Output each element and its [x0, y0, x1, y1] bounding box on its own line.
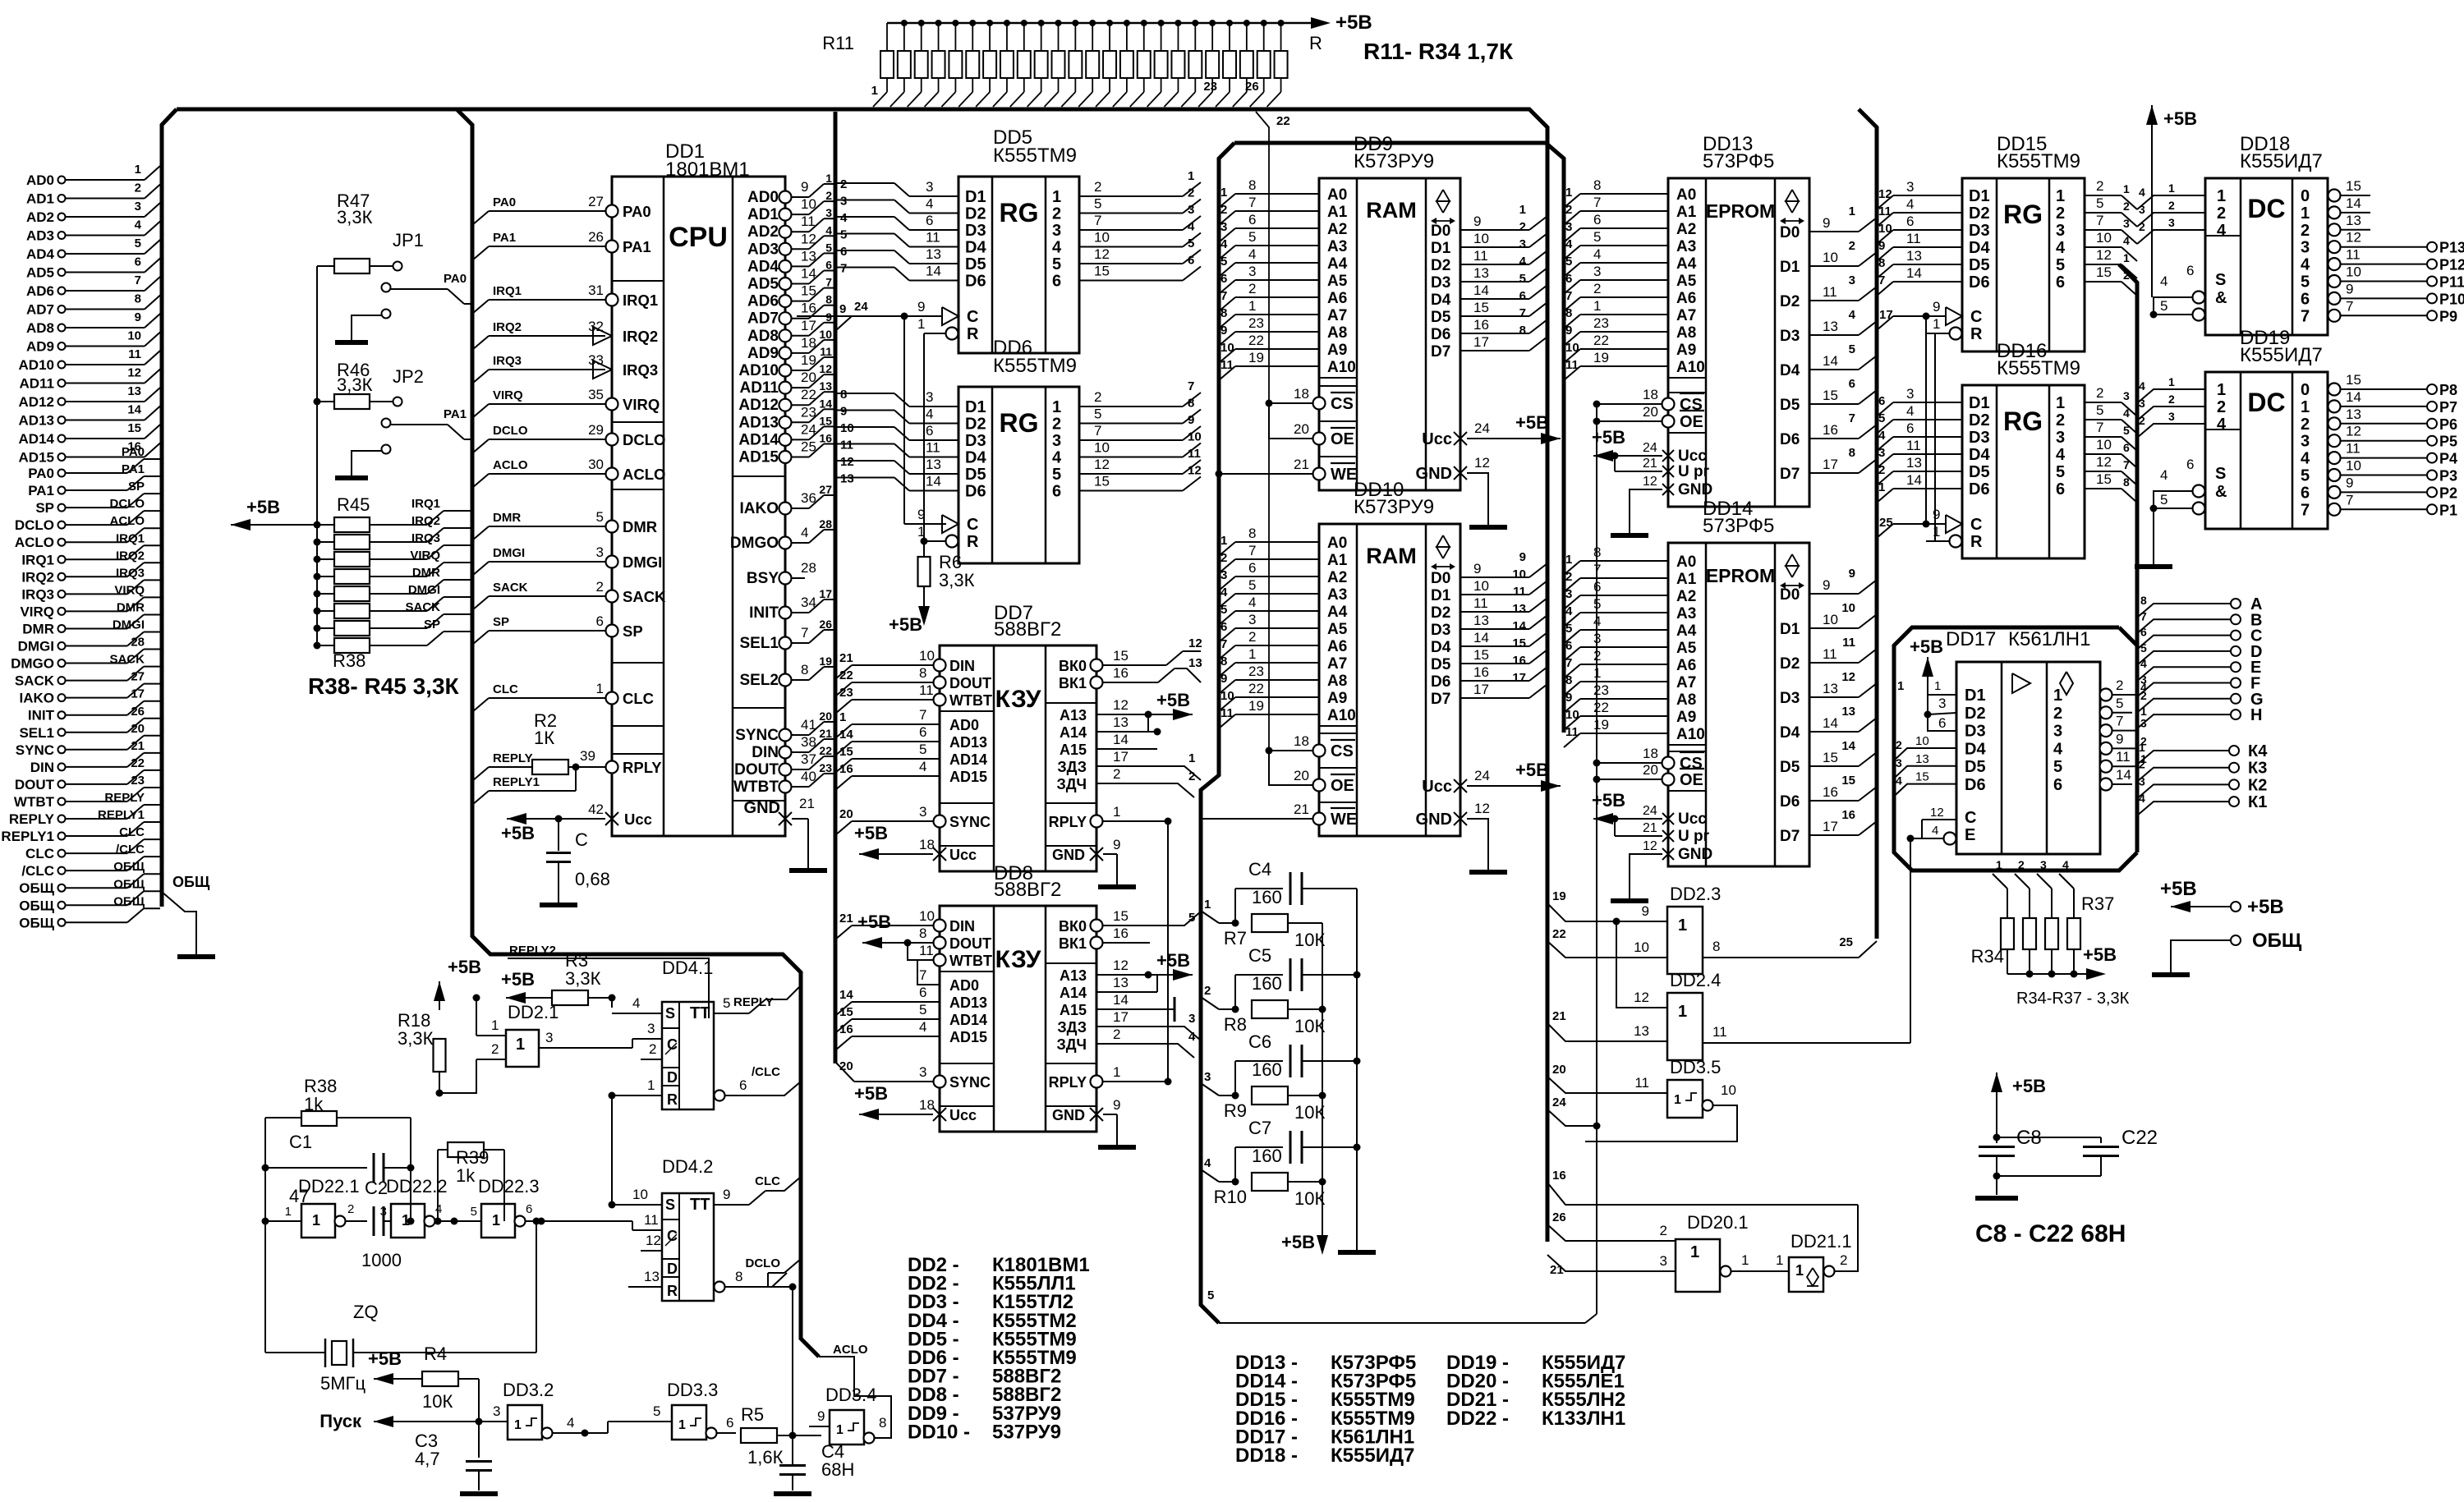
svg-text:D5: D5 — [1780, 397, 1800, 414]
svg-text:3: 3 — [919, 1064, 926, 1080]
svg-text:AD8: AD8 — [26, 320, 54, 336]
svg-text:A8: A8 — [1676, 691, 1696, 709]
svg-text:S: S — [2215, 271, 2226, 289]
svg-text:5: 5 — [2301, 467, 2310, 485]
svg-text:INIT: INIT — [28, 708, 55, 723]
decoder DD18 box — [2205, 178, 2328, 335]
Пуск arrow — [374, 1421, 479, 1422]
svg-text:2: 2 — [2096, 385, 2103, 401]
svg-text:19: 19 — [819, 655, 832, 668]
svg-text:19: 19 — [1593, 717, 1609, 733]
svg-text:7: 7 — [1519, 306, 1526, 320]
svg-text:DOUT: DOUT — [949, 935, 991, 952]
DD17 D4-D6 wires from frame — [1894, 748, 1956, 760]
svg-text:6: 6 — [926, 213, 933, 228]
bus: left frame vertical (connector bus X1) — [162, 109, 177, 907]
svg-text:A5: A5 — [1327, 621, 1348, 638]
svg-text:1: 1 — [1878, 480, 1885, 494]
svg-text:4: 4 — [1221, 586, 1228, 599]
svg-text:12: 12 — [840, 455, 854, 469]
svg-text:D1: D1 — [1965, 687, 1986, 705]
svg-text:20: 20 — [839, 1059, 853, 1073]
svg-text:+5В: +5В — [2083, 944, 2117, 965]
svg-text:3,3К: 3,3К — [398, 1028, 434, 1049]
svg-text:3: 3 — [825, 206, 832, 219]
svg-text:8: 8 — [1221, 306, 1227, 320]
register DD6 box — [958, 387, 1079, 563]
svg-text:AD10: AD10 — [738, 362, 779, 379]
svg-text:7: 7 — [825, 276, 832, 289]
svg-text:6: 6 — [2053, 776, 2062, 794]
svg-text:REPLY: REPLY — [493, 751, 533, 765]
svg-text:WTBT: WTBT — [733, 779, 779, 796]
svg-text:35: 35 — [588, 387, 604, 402]
svg-text:R10: R10 — [1214, 1187, 1247, 1207]
svg-text:11: 11 — [820, 345, 832, 358]
DD14 CS/OE wires — [1593, 760, 1601, 767]
svg-text:1: 1 — [1565, 553, 1572, 567]
flip-flop DD4.2 box — [662, 1193, 714, 1301]
svg-text:10: 10 — [1565, 708, 1579, 722]
DD5 pin R reset (1) — [946, 328, 958, 340]
svg-text:6: 6 — [840, 245, 847, 259]
svg-text:2: 2 — [2096, 178, 2103, 194]
svg-text:5: 5 — [2140, 641, 2147, 655]
svg-text:7: 7 — [1248, 543, 1256, 558]
terminal AD10 — [58, 361, 66, 369]
svg-text:13: 13 — [840, 472, 854, 486]
svg-text:27: 27 — [131, 670, 145, 684]
svg-text:4: 4 — [2053, 740, 2063, 758]
svg-text:D2: D2 — [965, 205, 986, 223]
svg-text:588ВГ2: 588ВГ2 — [994, 879, 1061, 901]
svg-text:3: 3 — [596, 544, 604, 560]
wire 26 from data bus to DD20.1 pin 2 — [1547, 1224, 1676, 1241]
svg-text:К573РУ9: К573РУ9 — [1354, 150, 1434, 172]
svg-text:P13: P13 — [2439, 240, 2464, 256]
terminal P13 — [2427, 242, 2437, 252]
svg-text:7: 7 — [2096, 420, 2103, 435]
svg-text:1: 1 — [2217, 187, 2226, 205]
svg-text:4: 4 — [2140, 657, 2147, 670]
svg-text:2: 2 — [2056, 204, 2065, 223]
DD8 A15 wire with stub mark — [1096, 1008, 1175, 1010]
svg-text:10: 10 — [1634, 939, 1649, 955]
DD13 pin CS (18) — [1662, 398, 1675, 411]
svg-text:3: 3 — [380, 1205, 387, 1219]
svg-text:ОБЩ: ОБЩ — [2252, 930, 2302, 952]
svg-text:3: 3 — [2056, 222, 2065, 240]
svg-text:IRQ2: IRQ2 — [116, 549, 145, 563]
svg-text:3: 3 — [840, 195, 847, 209]
svg-text:23: 23 — [839, 686, 853, 700]
svg-text:A4: A4 — [1327, 255, 1348, 273]
+5V feed line to DD18 S — [2151, 125, 2153, 297]
svg-text:AD9: AD9 — [747, 345, 779, 362]
svg-text:A7: A7 — [1327, 307, 1347, 324]
svg-text:9: 9 — [1933, 299, 1940, 315]
svg-text:CS: CS — [1331, 395, 1354, 413]
svg-text:8: 8 — [919, 665, 926, 681]
bus controller DD8 box — [940, 906, 1096, 1132]
svg-text:1: 1 — [647, 1077, 655, 1093]
svg-text:8: 8 — [825, 293, 832, 306]
DD8 pin Ucc (18) — [933, 1108, 946, 1121]
svg-text:+5В: +5В — [501, 969, 535, 990]
svg-text:К555ТМ9: К555ТМ9 — [993, 355, 1077, 377]
svg-text:+5В: +5В — [1281, 1232, 1315, 1252]
svg-text:ОБЩ: ОБЩ — [172, 874, 210, 890]
terminal IRQ2 — [58, 573, 66, 581]
DD17 triangle symbol — [2012, 673, 2030, 693]
terminal E — [2137, 667, 2230, 681]
+5V arrow down from R6 — [923, 586, 925, 612]
svg-text:3: 3 — [545, 1030, 553, 1045]
wire 20 from data bus to DD3.5 pin 11 — [1547, 1077, 1667, 1093]
wire /CLC net — [725, 1095, 749, 1096]
svg-text:8: 8 — [1593, 177, 1601, 193]
svg-text:16: 16 — [801, 301, 816, 316]
svg-text:13: 13 — [2346, 213, 2361, 228]
svg-text:7: 7 — [2140, 609, 2147, 622]
svg-text:VIRQ: VIRQ — [493, 388, 523, 402]
svg-text:ACLO: ACLO — [623, 466, 665, 483]
svg-text:5: 5 — [2096, 195, 2103, 211]
wire REPLY output DD4.1 — [714, 1013, 749, 1014]
svg-text:4: 4 — [1052, 449, 1062, 467]
svg-text:+5В: +5В — [1515, 760, 1549, 780]
DD8 ВК1 stub — [1103, 942, 1150, 944]
svg-text:+5В: +5В — [2012, 1076, 2046, 1096]
svg-text:6: 6 — [2186, 457, 2194, 472]
svg-text:DMR: DMR — [493, 511, 521, 525]
svg-text:4: 4 — [1188, 1030, 1196, 1044]
svg-text:P12: P12 — [2439, 257, 2464, 273]
svg-text:4: 4 — [1221, 237, 1228, 251]
svg-text:D2: D2 — [1969, 204, 1990, 223]
DD15 pin R (1) — [1950, 328, 1962, 340]
svg-text:R: R — [967, 325, 979, 343]
svg-text:19: 19 — [1593, 350, 1609, 365]
svg-text:AD12: AD12 — [19, 394, 54, 410]
svg-text:1: 1 — [2123, 182, 2130, 195]
svg-text:AD3: AD3 — [747, 241, 779, 258]
svg-text:13: 13 — [127, 384, 141, 398]
svg-text:2: 2 — [1094, 179, 1101, 195]
terminal AD5 — [58, 269, 66, 276]
resistor R39 — [314, 608, 321, 615]
svg-text:7: 7 — [135, 273, 141, 287]
resistor R8 10К — [1201, 997, 1219, 1009]
svg-text:REPLY: REPLY — [733, 995, 774, 1009]
svg-text:D6: D6 — [1431, 326, 1450, 343]
DD10 GND — [1454, 812, 1467, 825]
svg-text:GND: GND — [1416, 811, 1452, 829]
DD6 pin C clock (9) — [942, 515, 958, 533]
ground symbol CPU C — [558, 903, 559, 905]
wire 19 from data bus to DD2.3 pin 9 — [1547, 903, 1667, 921]
svg-text:DD22.3: DD22.3 — [478, 1176, 540, 1197]
svg-text:D: D — [667, 1069, 678, 1086]
svg-text:11: 11 — [1513, 585, 1526, 599]
svg-text:1: 1 — [1933, 524, 1940, 540]
resistor R42 — [314, 556, 321, 563]
svg-text:20: 20 — [1294, 421, 1309, 437]
svg-text:6: 6 — [825, 259, 832, 272]
svg-text:К3: К3 — [2248, 760, 2267, 778]
svg-text:R34: R34 — [1971, 946, 2004, 967]
CPU pin VIRQ (35) — [606, 398, 618, 411]
bus bottom wire to CS net vertical — [1219, 1322, 1585, 1324]
resistor R34 — [1280, 23, 1282, 51]
flip-flop DD4.1 box — [662, 1002, 714, 1109]
DD14 bidirectional arrow symbol — [1786, 554, 1799, 566]
svg-text:8: 8 — [1565, 306, 1572, 320]
svg-text:DD4.1: DD4.1 — [662, 958, 713, 978]
svg-text:17: 17 — [1823, 819, 1838, 834]
DD3.5 output 10 loop — [1585, 1105, 1737, 1141]
svg-text:4: 4 — [840, 211, 848, 225]
svg-text:5: 5 — [1849, 342, 1855, 356]
CPU pin IRQ2 (32) — [593, 327, 612, 345]
svg-text:17: 17 — [1113, 1009, 1129, 1025]
svg-text:3: 3 — [2301, 433, 2310, 451]
svg-text:SYNC: SYNC — [16, 742, 54, 758]
svg-text:16: 16 — [1473, 317, 1489, 333]
svg-text:14: 14 — [2346, 195, 2361, 211]
svg-text:4: 4 — [435, 1202, 442, 1216]
svg-text:P3: P3 — [2439, 468, 2457, 485]
svg-text:AD14: AD14 — [949, 751, 987, 768]
svg-text:10: 10 — [1878, 222, 1892, 236]
svg-text:А14: А14 — [1060, 985, 1087, 1001]
svg-text:D4: D4 — [965, 449, 986, 467]
svg-text:DCLO: DCLO — [110, 497, 145, 511]
svg-text:17: 17 — [801, 318, 816, 333]
svg-text:SACK: SACK — [623, 588, 666, 605]
svg-text:10К: 10К — [1294, 1188, 1325, 1209]
svg-text:D7: D7 — [1780, 828, 1800, 845]
svg-text:11: 11 — [2346, 247, 2361, 263]
svg-text:15: 15 — [2096, 471, 2112, 487]
svg-text:C8 - C22 68Н: C8 - C22 68Н — [1975, 1220, 2126, 1247]
feed vertical R46 to +5V line — [316, 402, 318, 525]
svg-text:A4: A4 — [1676, 622, 1697, 640]
svg-text:ACLO: ACLO — [493, 458, 528, 472]
svg-text:К133ЛН1: К133ЛН1 — [1542, 1408, 1625, 1430]
svg-text:4: 4 — [1593, 246, 1601, 262]
svg-text:1: 1 — [1221, 186, 1227, 200]
svg-text:5: 5 — [1248, 577, 1256, 593]
svg-text:28: 28 — [131, 636, 145, 650]
terminal P12 — [2427, 260, 2437, 269]
svg-text:10К: 10К — [422, 1391, 453, 1412]
svg-text:A0: A0 — [1676, 186, 1696, 204]
svg-text:4: 4 — [1248, 246, 1256, 262]
svg-text:14: 14 — [839, 728, 853, 742]
svg-text:S: S — [2215, 465, 2226, 483]
svg-text:10К: 10К — [1294, 1102, 1325, 1123]
svg-text:13: 13 — [801, 248, 816, 264]
svg-text:2: 2 — [1660, 1223, 1667, 1238]
resistor R16 — [972, 23, 973, 51]
svg-text:21: 21 — [1550, 1263, 1564, 1277]
wire SACK to CPU — [472, 596, 489, 610]
DD8 pin RPLY (1) — [1091, 1076, 1103, 1088]
resistor R13 — [921, 23, 922, 51]
svg-text:C: C — [967, 308, 978, 326]
svg-text:6: 6 — [919, 724, 926, 740]
svg-text:D3: D3 — [1969, 222, 1990, 240]
svg-text:AD7: AD7 — [747, 310, 779, 328]
svg-text:10: 10 — [2346, 458, 2361, 474]
svg-text:6: 6 — [2301, 290, 2310, 308]
svg-text:+5В: +5В — [1335, 11, 1372, 34]
DD5 R to DD6 R vertical — [923, 333, 925, 541]
wire 21 from data bus to DD20.1 pin 3 — [1547, 1255, 1676, 1271]
resistor R24 — [1109, 23, 1110, 51]
svg-text:2: 2 — [1052, 416, 1061, 434]
jumper JP2 ground pin — [382, 445, 391, 454]
svg-text:8: 8 — [879, 1415, 886, 1431]
svg-text:10: 10 — [819, 328, 832, 341]
svg-text:4: 4 — [2139, 792, 2145, 805]
terminal К4 — [2137, 751, 2228, 765]
svg-text:15: 15 — [1094, 474, 1110, 489]
svg-text:8: 8 — [2123, 475, 2130, 489]
svg-text:DMGI: DMGI — [113, 618, 145, 632]
DD17 D2/D3 wires — [1928, 713, 1956, 714]
svg-text:D1: D1 — [1969, 187, 1990, 205]
terminal DIN — [58, 763, 66, 770]
DD9 WE wire — [1216, 471, 1223, 478]
wire from DD5 C junction up to AD7 write strobe — [797, 315, 904, 317]
bus: CPU-DD5 data vertical x=1017 — [834, 112, 838, 1063]
svg-text:1: 1 — [596, 681, 604, 696]
svg-text:GND: GND — [1678, 481, 1712, 498]
svg-text:1: 1 — [1934, 679, 1941, 693]
svg-text:+5В: +5В — [2247, 896, 2284, 918]
svg-text:SACK: SACK — [15, 673, 55, 689]
svg-text:13: 13 — [1823, 681, 1838, 696]
svg-text:+5В: +5В — [1156, 690, 1190, 710]
svg-text:6: 6 — [1849, 377, 1855, 391]
svg-text:3: 3 — [2139, 774, 2145, 788]
svg-text:PA0: PA0 — [444, 272, 467, 286]
CPU pin RPLY () — [606, 761, 618, 774]
svg-text:/CLC: /CLC — [752, 1065, 780, 1079]
svg-text:11: 11 — [1906, 438, 1921, 453]
svg-text:10: 10 — [1221, 341, 1234, 355]
svg-text:6: 6 — [1565, 639, 1572, 653]
svg-text:+5В: +5В — [1910, 636, 1943, 657]
svg-text:10К: 10К — [1294, 1016, 1325, 1036]
svg-text:14: 14 — [1113, 992, 1129, 1008]
svg-text:22: 22 — [1552, 927, 1566, 941]
svg-text:A2: A2 — [1676, 588, 1696, 605]
svg-text:C22: C22 — [2122, 1127, 2158, 1149]
svg-text:REPLY2: REPLY2 — [509, 944, 556, 958]
svg-text:11: 11 — [919, 943, 934, 958]
svg-text:8: 8 — [919, 926, 926, 941]
svg-text:H: H — [2250, 706, 2262, 724]
svg-text:AD12: AD12 — [738, 397, 779, 414]
DD9 CS/OE wires — [1266, 400, 1273, 407]
svg-text:PA0: PA0 — [122, 445, 145, 459]
svg-text:D6: D6 — [1969, 273, 1990, 292]
svg-text:19: 19 — [801, 352, 816, 368]
svg-text:ACLO: ACLO — [15, 535, 54, 550]
DD7 ЗДЗ/ЗДЧ wires to bus — [1096, 765, 1166, 767]
svg-text:D6: D6 — [1965, 776, 1986, 794]
svg-text:9: 9 — [723, 1187, 730, 1202]
svg-text:14: 14 — [2346, 389, 2361, 405]
svg-text:R38: R38 — [333, 650, 365, 671]
svg-text:3: 3 — [1906, 386, 1914, 402]
svg-text:9: 9 — [1823, 215, 1830, 231]
svg-text:8: 8 — [2140, 594, 2147, 607]
svg-text:AD4: AD4 — [26, 246, 55, 262]
svg-text:4: 4 — [926, 196, 933, 212]
svg-text:10: 10 — [1823, 250, 1838, 265]
resistor R2 1K — [532, 760, 568, 774]
svg-text:6: 6 — [1052, 483, 1061, 501]
svg-text:D4: D4 — [1780, 724, 1800, 742]
svg-text:10: 10 — [919, 908, 935, 924]
svg-text:2: 2 — [1896, 738, 1902, 751]
svg-text:3: 3 — [2056, 429, 2065, 447]
svg-text:A10: A10 — [1676, 726, 1705, 743]
svg-text:6: 6 — [1221, 272, 1227, 286]
svg-text:+5В: +5В — [246, 497, 280, 517]
svg-text:A1: A1 — [1327, 204, 1348, 221]
svg-text:13: 13 — [1823, 319, 1838, 334]
svg-text:К555ТМ9: К555ТМ9 — [1997, 357, 2080, 379]
svg-text:ОБЩ: ОБЩ — [113, 877, 145, 891]
svg-text:5: 5 — [2123, 424, 2130, 437]
svg-text:1: 1 — [1113, 1064, 1120, 1080]
svg-text:2: 2 — [2116, 678, 2123, 693]
svg-text:3: 3 — [1593, 264, 1601, 279]
svg-text:68Н: 68Н — [821, 1459, 854, 1480]
svg-text:3: 3 — [2140, 717, 2147, 730]
svg-text:+5В: +5В — [1156, 950, 1190, 971]
svg-text:20: 20 — [1294, 768, 1309, 783]
svg-text:19: 19 — [1248, 698, 1264, 714]
svg-text:D5: D5 — [1965, 758, 1986, 776]
svg-text:1: 1 — [1776, 1252, 1783, 1268]
svg-text:12: 12 — [2096, 247, 2112, 263]
terminal AD6 — [58, 287, 66, 295]
svg-text:11: 11 — [840, 439, 853, 452]
svg-text:14: 14 — [1113, 732, 1129, 747]
svg-text:DOUT: DOUT — [734, 761, 779, 779]
svg-text:P6: P6 — [2439, 416, 2457, 433]
svg-text:4: 4 — [2301, 450, 2310, 468]
bus: top horizontal rail to RAM data corner — [177, 109, 1547, 1242]
wire SP to CPU — [472, 631, 489, 645]
svg-text:A4: A4 — [1327, 604, 1348, 621]
svg-text:AD14: AD14 — [949, 1012, 987, 1028]
wire /CLC into bus x=975 — [725, 1095, 754, 1096]
svg-text:К555ИД7: К555ИД7 — [2240, 344, 2323, 366]
svg-text:5: 5 — [1565, 622, 1572, 636]
svg-text:C5: C5 — [1248, 945, 1271, 966]
DD7 pin ВК1 (16) — [1091, 677, 1103, 689]
terminal AD3 — [58, 232, 66, 239]
svg-text:24: 24 — [1474, 420, 1490, 436]
svg-text:5: 5 — [1188, 237, 1194, 250]
